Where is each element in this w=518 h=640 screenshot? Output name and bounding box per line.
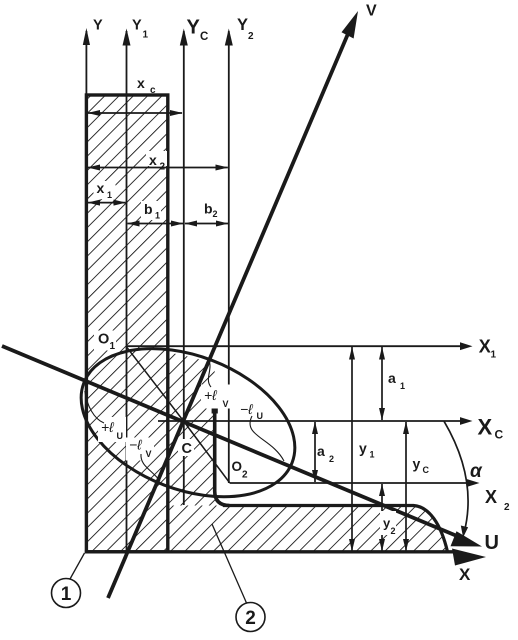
svg-text:C: C: [182, 441, 193, 457]
axis U (principal): [2, 346, 460, 537]
inertia ellipse: [60, 320, 316, 524]
axis X1: [126, 345, 462, 347]
centroid line O1-C-O2: [126, 346, 230, 483]
inner contour bar with fillet: [215, 406, 230, 506]
svg-text:2: 2: [248, 31, 254, 42]
svg-text:1: 1: [155, 211, 160, 221]
svg-text:a: a: [317, 443, 325, 459]
axis Y: [85, 31, 87, 95]
svg-text:Y: Y: [187, 17, 201, 39]
svg-text:U: U: [485, 532, 499, 554]
point O1 label: [94, 331, 116, 351]
svg-text:X: X: [485, 487, 497, 507]
svg-text:x: x: [149, 152, 157, 168]
label +lv: [201, 385, 232, 409]
angle alpha arc: [444, 421, 468, 533]
svg-text:V: V: [223, 399, 229, 409]
axis X2: [230, 482, 469, 484]
svg-text:y: y: [359, 440, 367, 456]
svg-text:2: 2: [329, 454, 334, 464]
label -lv: [126, 438, 154, 461]
label +lu: [98, 417, 126, 442]
svg-text:Y: Y: [132, 18, 142, 34]
svg-text:1: 1: [110, 341, 116, 352]
svg-text:O: O: [98, 332, 109, 348]
svg-text:C: C: [423, 465, 430, 475]
dimension a1: [381, 347, 383, 420]
point C label: [178, 439, 194, 456]
svg-text:2: 2: [245, 608, 256, 629]
svg-text:2: 2: [242, 470, 248, 481]
svg-text:X: X: [459, 565, 471, 584]
svg-text:c: c: [150, 85, 156, 96]
svg-text:Y: Y: [237, 16, 248, 34]
rectangle 2 hatched area (horizontal leg): [168, 506, 448, 552]
svg-text:1: 1: [400, 381, 405, 391]
svg-text:1: 1: [61, 584, 72, 605]
rectangle 1 hatched area (vertical leg): [86, 95, 167, 552]
axis V (principal): [108, 22, 353, 598]
rectangle 1 outline: [86, 95, 167, 552]
svg-text:V: V: [366, 3, 377, 20]
svg-text:O: O: [232, 459, 243, 474]
hatched sliver right of divider inside ellipse: [168, 353, 230, 506]
leader -lv: [141, 454, 160, 481]
svg-text:C: C: [200, 31, 208, 43]
leader +lu: [85, 391, 104, 423]
svg-text:α: α: [470, 461, 483, 482]
leader +lv: [208, 359, 211, 387]
svg-text:2: 2: [160, 162, 166, 173]
X axis arrowhead: [452, 549, 486, 566]
dimension yc: [405, 422, 407, 551]
leader to figure 1: [70, 553, 85, 579]
svg-text:2: 2: [504, 502, 510, 513]
dimension x1: [88, 202, 126, 204]
axis Y2: [228, 31, 230, 483]
svg-text:+ℓ: +ℓ: [101, 419, 114, 435]
svg-text:y: y: [413, 456, 421, 472]
dimension b2: [185, 223, 228, 225]
svg-text:1: 1: [143, 30, 149, 41]
dimension y2: [381, 484, 383, 551]
dimension a2: [314, 422, 316, 482]
svg-text:a: a: [388, 370, 396, 386]
callout circle 2: [236, 603, 265, 632]
svg-text:+ℓ: +ℓ: [204, 387, 217, 403]
svg-text:2: 2: [391, 526, 396, 536]
bottom edge / X axis line: [85, 550, 458, 553]
svg-text:U: U: [117, 431, 124, 441]
svg-text:x: x: [97, 180, 105, 196]
svg-text:Y: Y: [93, 18, 103, 34]
svg-text:1: 1: [107, 190, 112, 200]
leg 2 top edge and rounded toe: [223, 506, 448, 552]
svg-text:X: X: [478, 415, 493, 440]
svg-text:2: 2: [213, 209, 218, 219]
svg-text:−ℓ: −ℓ: [240, 401, 253, 417]
svg-text:b: b: [144, 201, 153, 217]
svg-text:b: b: [204, 201, 213, 217]
svg-text:−ℓ: −ℓ: [129, 437, 142, 453]
dimension y1: [351, 347, 353, 551]
axis Xc: [158, 420, 462, 422]
svg-text:1: 1: [370, 450, 375, 460]
dimension x2: [88, 167, 228, 169]
dimension b1: [128, 223, 184, 225]
svg-text:1: 1: [491, 350, 497, 361]
svg-text:X: X: [479, 337, 491, 357]
callout circle 1: [52, 579, 81, 608]
axis Y1: [126, 31, 128, 552]
svg-text:C: C: [495, 428, 504, 442]
svg-text:V: V: [146, 449, 152, 459]
svg-text:x: x: [137, 75, 145, 91]
axis Yc: [183, 31, 185, 505]
dimension xc: [88, 112, 182, 114]
leader to figure 2: [212, 524, 247, 603]
leader -lu: [250, 416, 284, 461]
svg-text:U: U: [257, 411, 264, 421]
